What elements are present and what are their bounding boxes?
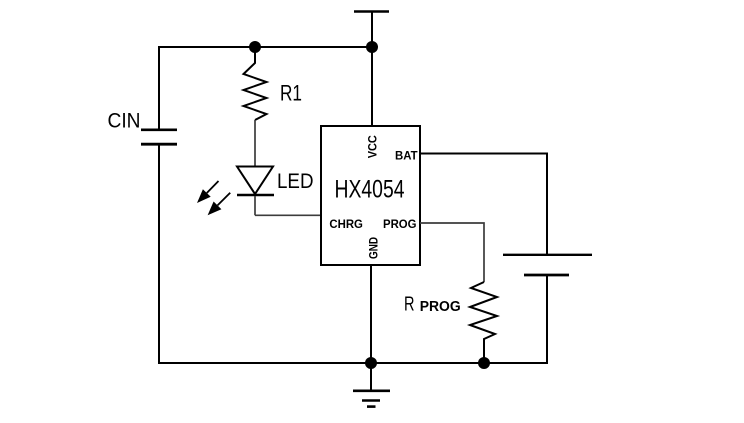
capacitor CIN top plate — [141, 129, 177, 132]
wire left vertical upper — [158, 46, 160, 129]
LED D1 triangle — [237, 167, 273, 195]
wire to CHRG pin — [255, 214, 321, 216]
svg-text:GND: GND — [366, 237, 380, 259]
svg-text:CIN: CIN — [108, 110, 141, 133]
svg-text:LED: LED — [277, 169, 314, 193]
power symbol VCC (top bar) — [354, 10, 389, 13]
svg-text:R: R — [404, 293, 415, 315]
wire VCC pin to rail — [371, 47, 373, 126]
wire R1 to LED — [254, 120, 256, 167]
node junction top-right — [366, 41, 378, 53]
svg-text:PROG: PROG — [383, 217, 417, 231]
wire battery negative down — [546, 276, 548, 364]
ground bar 3 — [367, 405, 376, 408]
svg-text:R1: R1 — [280, 81, 302, 106]
battery BT1 negative plate — [524, 274, 569, 277]
wire top rail — [159, 46, 372, 48]
resistor RPROG — [470, 282, 497, 363]
ground bar 1 — [353, 389, 390, 392]
wire left vertical lower — [158, 145, 160, 364]
ground bar 2 — [362, 399, 380, 402]
LED cathode bar — [237, 194, 274, 197]
battery BT1 positive plate — [503, 254, 592, 256]
wire GND pin down — [370, 265, 372, 363]
node junction bottom-center — [365, 357, 377, 369]
node junction bottom RPROG — [478, 357, 490, 369]
wire PROG pin to RPROG — [420, 223, 484, 282]
LED emission arrow 2 — [208, 193, 231, 216]
wire power stem — [371, 12, 373, 48]
svg-text:VCC: VCC — [365, 135, 379, 158]
node junction top-left — [249, 41, 261, 53]
wire LED cathode down — [254, 196, 256, 215]
svg-text:CHRG: CHRG — [329, 217, 363, 231]
svg-text:HX4054: HX4054 — [335, 176, 405, 204]
op-amp U1 HX4054 body — [321, 126, 420, 265]
wire bottom rail — [159, 362, 547, 364]
svg-text:PROG: PROG — [420, 299, 461, 315]
resistor R1 — [244, 47, 267, 120]
LED emission arrow 1 — [197, 181, 219, 203]
svg-text:BAT: BAT — [395, 149, 418, 163]
ground stem — [370, 363, 372, 390]
wire BAT pin to battery — [420, 154, 547, 255]
capacitor CIN bottom plate — [141, 143, 177, 146]
